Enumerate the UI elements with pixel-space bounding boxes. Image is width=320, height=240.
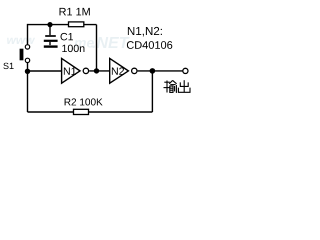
label N1,N2: [128,27,162,37]
inverter N1 [62,58,89,83]
label CD40106 [127,41,172,49]
label R1 1M [60,8,90,15]
resistor R1 [69,22,84,27]
node N2 output / R2 feedback junction [150,68,156,74]
label R2 100K [65,98,103,105]
wire top rail [28,24,97,26]
node A junction on top rail [47,22,52,27]
switch S1 [20,45,30,63]
wire right drop from top rail to N1 output [96,25,98,71]
wire left rail lower [27,63,29,112]
label 100n [62,45,84,53]
node S1/N1-input junction [25,69,30,74]
wire bottom rail [28,111,153,113]
capacitor C1 [44,25,58,45]
output terminal [183,68,188,73]
node N1 output / R1 feedback junction [94,68,99,73]
wire right drop to bottom rail [151,71,153,112]
resistor R2 [74,109,89,114]
wire N2 output to terminal [138,70,183,72]
ground bar below C1 [44,45,58,47]
inverter N2 [110,58,137,83]
label S1 [3,63,13,69]
wire N1 input [28,70,62,72]
label 输出 (output) [164,80,191,93]
label C1 [61,33,74,41]
wire left rail upper [27,24,29,45]
wire N1 output to N2 input [89,70,110,72]
